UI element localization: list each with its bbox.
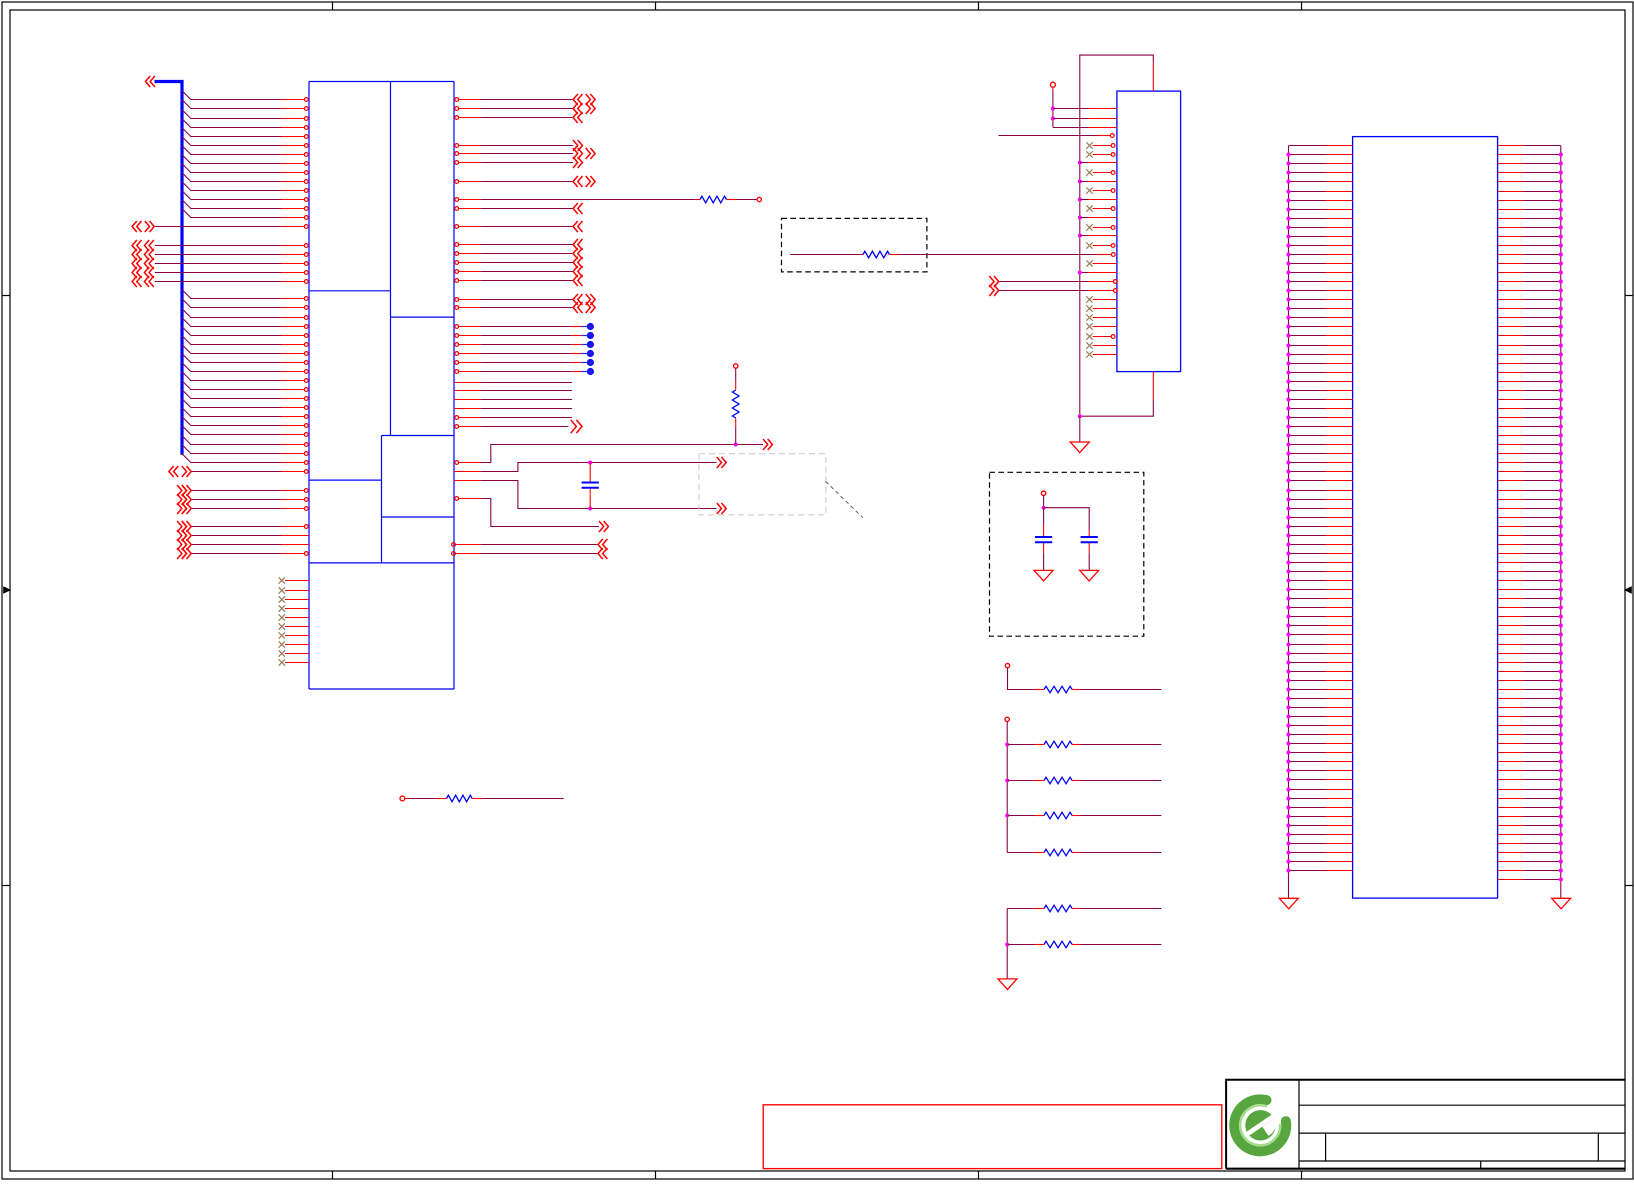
junction J1 L24 (1286, 352, 1290, 356)
wire J1 pin R26 (1498, 372, 1524, 374)
junction J1 L57 (1286, 651, 1290, 655)
wire J1 pin L7 (1289, 200, 1326, 202)
wire J1 pin L52 (1289, 607, 1326, 609)
wire J1 pin R40 (1498, 499, 1524, 501)
wire J1 pin R60 (1498, 680, 1524, 682)
wire U2 pin 2 from T3 (1053, 118, 1089, 120)
wire J1 pin L55 (1289, 634, 1326, 636)
wire east I3 (482, 344, 572, 346)
pin U1 east I1 (455, 325, 459, 329)
pin U1 west 11 (304, 189, 308, 193)
wire J1 pin R51 (1498, 598, 1524, 600)
junction J1 R45 (1559, 542, 1563, 546)
wire J1 pin L47 (1289, 562, 1326, 564)
wire bus branch M9 (182, 363, 282, 372)
pin U1 west 35 (304, 424, 308, 428)
pin U1 west 9 (304, 171, 308, 175)
port chevron G7 row3 (177, 539, 182, 550)
wire R4 out (1080, 689, 1161, 691)
wire R6 out (1080, 780, 1161, 782)
right border center arrow (1625, 587, 1631, 593)
pin U1 west 22 (304, 306, 308, 310)
no-connect pin U2 27 (1086, 342, 1092, 348)
port chevron east A1 (573, 94, 578, 105)
wire bus branch M11 (182, 381, 282, 390)
wire east F1 (482, 226, 574, 228)
wire R7 out (1080, 815, 1161, 817)
resistor R9 (1035, 908, 1044, 910)
wire J1 pin L29 (1289, 399, 1326, 401)
wire G7 row2 (192, 535, 282, 537)
pin U1 west 15 (304, 225, 308, 229)
pin U1 east I3 (455, 343, 459, 347)
wire bus branch L10 (182, 173, 282, 182)
pin U1 west 41 (304, 489, 308, 493)
wire J1 pin R44 (1498, 535, 1524, 537)
wire J1 pin R28 (1498, 390, 1524, 392)
no-connect pin U1 south-west 7 (279, 632, 285, 638)
wire bus branch L9 (182, 164, 282, 173)
junction J1 R2 (1559, 152, 1563, 156)
wire bus branch L2 (182, 100, 282, 109)
no-connect pin U1 south-west 4 (279, 605, 285, 611)
wire J1 pin L65 (1289, 725, 1326, 727)
port chevron G6 row3 (177, 503, 182, 514)
junction J1 L55 (1286, 632, 1290, 636)
wire J1 pin R73 (1498, 798, 1524, 800)
wire rail to R5 (1007, 744, 1035, 746)
wire U2 pin 3 from T3 (1053, 127, 1089, 129)
pin U1 east B2 (455, 152, 459, 156)
wire east I5 (482, 362, 572, 364)
wire G3 row1 (155, 245, 282, 247)
pin U1 east I5 (455, 361, 459, 365)
wire J1 pin L35 (1289, 453, 1326, 455)
junction J1 R66 (1559, 732, 1563, 736)
wire east G1 (482, 244, 574, 246)
no-connect pin U1 south-west 6 (279, 623, 285, 629)
no-connect pin U2 14 (1086, 224, 1092, 230)
pin U1 west 30 (304, 379, 308, 383)
wire J1 pin R54 (1498, 625, 1524, 627)
bus entry dot I4 (587, 350, 594, 357)
junction J1 R9 (1559, 216, 1563, 220)
pin U2 21 (edge circle) (1113, 289, 1117, 293)
wire J1 pin R38 (1498, 480, 1524, 482)
junction J1 L50 (1286, 587, 1290, 591)
wire port row y226 (155, 226, 282, 228)
wire J1 pin R47 (1498, 562, 1524, 564)
junction J1 L56 (1286, 642, 1290, 646)
wire J1 pin L32 (1289, 426, 1326, 428)
terminal T3 (1050, 82, 1055, 87)
wire east H1 (482, 299, 574, 301)
J1 right ground rail (1560, 146, 1562, 880)
pin U1 east P1 (455, 497, 459, 501)
junction J1 L41 (1286, 506, 1290, 510)
wire J1 pin R31 (1498, 417, 1524, 419)
junction T4 (1042, 506, 1046, 510)
wire J1 pin R21 (1498, 326, 1524, 328)
junction J1 R19 (1559, 306, 1563, 310)
wire U2 pin 7 from rail (1078, 161, 1082, 165)
junction J1 R70 (1559, 768, 1563, 772)
junction J1 R61 (1559, 687, 1563, 691)
wire bus branch M10 (182, 372, 282, 381)
wire U2 pin 13 from rail (1078, 216, 1082, 220)
wire J1 pin L11 (1289, 236, 1326, 238)
wire rail to R6 (1007, 780, 1035, 782)
junction J1 L51 (1286, 596, 1290, 600)
pin U1 west 28 (304, 361, 308, 365)
resistor R4 (1035, 689, 1044, 691)
junction J1 R22 (1559, 333, 1563, 337)
wire J1 pin R32 (1498, 426, 1524, 428)
wire J1 pin R29 (1498, 399, 1524, 401)
wire J1 pin L10 (1289, 227, 1326, 229)
junction node N1 (588, 507, 592, 511)
junction J1 R52 (1559, 605, 1563, 609)
port chevron east H2 (573, 302, 578, 313)
wire bus branch L1 (182, 91, 282, 100)
wire gnd rail 2 (1006, 909, 1008, 979)
J1 left ground rail (1288, 146, 1290, 871)
wire J1 pin R58 (1498, 662, 1524, 664)
junction J1 L17 (1286, 288, 1290, 292)
wire J1 pin L22 (1289, 335, 1326, 337)
pin U1 east G1 (455, 243, 459, 247)
junction J1 R25 (1559, 361, 1563, 365)
resistor R5 (1035, 744, 1044, 746)
wire J1 pin R42 (1498, 517, 1524, 519)
wire J1 pin R66 (1498, 734, 1524, 736)
wire bus branch M2 (182, 299, 282, 308)
junction J1 R64 (1559, 714, 1563, 718)
red annotation box (763, 1105, 1222, 1169)
junction J1 R72 (1559, 787, 1563, 791)
junction J1 R73 (1559, 796, 1563, 800)
junction J1 R30 (1559, 406, 1563, 410)
wire J1 pin R27 (1498, 381, 1524, 383)
no-connect pin U1 south-west 5 (279, 614, 285, 620)
wire J1 pin R68 (1498, 752, 1524, 754)
pin U1 west 42 (304, 498, 308, 502)
port chevron east B1 (573, 140, 578, 151)
port chevrons bidirectional row y226 (132, 221, 137, 232)
junction J1 L35 (1286, 451, 1290, 455)
junction J1 R4 (1559, 170, 1563, 174)
wire bus branch M14 (182, 408, 282, 417)
resistor R7 (1035, 815, 1044, 817)
wire J1 pin L34 (1289, 444, 1326, 446)
pin U1 west 44 (304, 525, 308, 529)
pin U1 east J4 (454, 408, 482, 410)
junction J1 R54 (1559, 623, 1563, 627)
junction node L1 (734, 443, 738, 447)
pin U1 east F1 (455, 225, 459, 229)
junction J1 R3 (1559, 161, 1563, 165)
wire east N1 (454, 480, 482, 482)
wire T4 to C3 (1044, 508, 1090, 531)
junction J1 L10 (1286, 225, 1290, 229)
junction J1 L27 (1286, 379, 1290, 383)
wire J1 pin R76 (1498, 825, 1524, 827)
wire bus branch M12 (182, 390, 282, 399)
wire bus branch M5 (182, 327, 282, 336)
wire J1 pin R18 (1498, 299, 1524, 301)
wire J1 pin L37 (1289, 471, 1326, 473)
resistor R2 (732, 390, 739, 418)
wire R11 out (472, 798, 482, 800)
wire J1 pin R7 (1498, 200, 1524, 202)
junction J1 L14 (1286, 261, 1290, 265)
wire J1 pin L6 (1289, 191, 1326, 193)
junction J1 L66 (1286, 732, 1290, 736)
junction J1 L2 (1286, 152, 1290, 156)
resistor R1 (700, 196, 726, 203)
pin U1 west 2 (304, 107, 308, 111)
wire J1 pin R9 (1498, 218, 1524, 220)
junction J1 L44 (1286, 533, 1290, 537)
junction J1 L36 (1286, 460, 1290, 464)
wire G3 row3 (155, 263, 282, 265)
wire J1 pin L48 (1289, 571, 1326, 573)
wire J1 pin R22 (1498, 335, 1524, 337)
junction J1 L78 (1286, 841, 1290, 845)
pin U1 west 6 (304, 144, 308, 148)
wire east G4 (482, 271, 574, 273)
no-connect pin U1 south-west 8 (279, 641, 285, 647)
junction J1 R40 (1559, 497, 1563, 501)
wire J1 pin L30 (1289, 408, 1326, 410)
wire R5 out (1080, 744, 1161, 746)
junction J1 R15 (1559, 270, 1563, 274)
junction J1 L7 (1286, 198, 1290, 202)
wire J1 pin L18 (1289, 299, 1326, 301)
wire J1 pin L66 (1289, 734, 1326, 736)
junction J1 L9 (1286, 216, 1290, 220)
pin U1 west 29 (304, 370, 308, 374)
no-connect pin U2 8 (1086, 169, 1092, 175)
junction J1 L32 (1286, 424, 1290, 428)
junction J1 L48 (1286, 569, 1290, 573)
junction J1 L74 (1286, 805, 1290, 809)
wire J1 pin L80 (1289, 861, 1326, 863)
capacitor C2 (1035, 536, 1052, 538)
no-connect pin U2 18 (1086, 260, 1092, 266)
wire east B2 (482, 153, 574, 155)
port chevron east A2 (573, 103, 578, 114)
pin U1 west 40 (304, 470, 308, 474)
pin U1 west 36 (304, 433, 308, 437)
wire J1 pin L31 (1289, 417, 1326, 419)
wire east J1 (482, 382, 573, 384)
bus entry chevron at bus head (146, 76, 151, 87)
wire J1 pin R59 (1498, 671, 1524, 673)
wire east M1 (454, 471, 482, 473)
wire J1 pin R24 (1498, 354, 1524, 356)
wire J1 pin R16 (1498, 281, 1524, 283)
wire J1 pin L27 (1289, 381, 1326, 383)
junction J1 L18 (1286, 297, 1290, 301)
junction J1 R32 (1559, 424, 1563, 428)
wire J1 pin R53 (1498, 616, 1524, 618)
port chevron G7 row4 (177, 548, 182, 559)
junction J1 R38 (1559, 478, 1563, 482)
junction J1 R6 (1559, 189, 1563, 193)
wire J1 pin R17 (1498, 290, 1524, 292)
wire bus branch M8 (182, 354, 282, 363)
pin U1 east K1 (455, 425, 459, 429)
port chevron G7 row1 (177, 521, 182, 532)
no-connect pin U2 23 (1086, 305, 1092, 311)
junction J1 R60 (1559, 678, 1563, 682)
junction J1 L19 (1286, 306, 1290, 310)
wire U2 top loop (1080, 55, 1154, 416)
junction J1 L38 (1286, 478, 1290, 482)
pin U1 west 4 (304, 126, 308, 130)
title block row divider 3 (1299, 1160, 1625, 1162)
junction J1 L16 (1286, 279, 1290, 283)
wire east L1 to junction (482, 445, 764, 463)
junction J1 L61 (1286, 687, 1290, 691)
junction J1 L75 (1286, 814, 1290, 818)
port chevron left G3 row5 (132, 276, 137, 287)
pin U1 west 20 (304, 280, 308, 284)
pin U1 west 27 (304, 352, 308, 356)
wire J1 pin R3 (1498, 163, 1524, 165)
wire T4 down (1043, 496, 1045, 508)
junction J1 L21 (1286, 324, 1290, 328)
junction J1 R37 (1559, 469, 1563, 473)
pin U1 east J3 (454, 399, 482, 401)
pin U1 east N1 (454, 480, 482, 482)
junction J1 R14 (1559, 261, 1563, 265)
wire bus branch M6 (182, 336, 282, 345)
wire bus branch M1 (182, 290, 282, 299)
wire J1 pin L58 (1289, 662, 1326, 664)
U1 internal divider y290 (309, 290, 391, 292)
pin U1 east I4 (455, 352, 459, 356)
U1 internal divider y480 (309, 479, 382, 481)
port chevrons bidirectional row y471 (169, 466, 174, 477)
junction J1 L80 (1286, 859, 1290, 863)
junction J1 L76 (1286, 823, 1290, 827)
title block logo cell divider (1298, 1080, 1300, 1169)
junction J1 R10 (1559, 225, 1563, 229)
port chevron east G1 (573, 239, 578, 250)
junction J1 L25 (1286, 361, 1290, 365)
U1 internal divider y562 (309, 562, 454, 564)
wire east G5 (482, 280, 574, 282)
wire J1 pin L5 (1289, 181, 1326, 183)
pin U1 west 21 (304, 297, 308, 301)
wire J1 pin L51 (1289, 598, 1326, 600)
wire J1 pin L49 (1289, 580, 1326, 582)
wire harness to U2 pin 20 (999, 281, 1089, 283)
port chevron east G4 (573, 266, 578, 277)
wire J1 pin R71 (1498, 779, 1524, 781)
no-connect pin U2 12 (1086, 205, 1092, 211)
port chevron east L1 (763, 439, 768, 450)
junction J1 R49 (1559, 578, 1563, 582)
pin U1 east J2 (454, 390, 482, 392)
wire J1 pin L73 (1289, 798, 1326, 800)
wire U2 pin 9 from rail (1078, 180, 1082, 184)
junction J1 R75 (1559, 814, 1563, 818)
wire J1 pin L20 (1289, 317, 1326, 319)
resistor R3 (863, 251, 889, 258)
wire J1 pin L23 (1289, 345, 1326, 347)
junction J1 L40 (1286, 497, 1290, 501)
title block col divider row4 (1480, 1161, 1482, 1169)
junction J1 L53 (1286, 614, 1290, 618)
wire J1 pin L26 (1289, 372, 1326, 374)
wire J1 pin R67 (1498, 743, 1524, 745)
resistor R6 (1035, 780, 1044, 782)
wire into R3 (790, 254, 861, 256)
pin U1 east I2 (455, 334, 459, 338)
wire R8 out (1080, 852, 1161, 854)
bus entry dot I1 (587, 323, 594, 330)
port chevron east N1 (717, 503, 722, 514)
wire U2 pin 1 from T3 (1053, 108, 1089, 110)
port chevron east P1 (599, 521, 604, 532)
junction J1 R8 (1559, 207, 1563, 211)
junction J1 R71 (1559, 777, 1563, 781)
no-connect pin U2 10 (1086, 187, 1092, 193)
wire east A2 (482, 108, 574, 110)
junction J1 L54 (1286, 623, 1290, 627)
wire J1 pin L72 (1289, 789, 1326, 791)
junction J1 L63 (1286, 705, 1290, 709)
wire J1 pin R55 (1498, 634, 1524, 636)
junction J1 L37 (1286, 469, 1290, 473)
port chevron left G3 row2 (132, 249, 137, 260)
pin U1 east H2 (455, 306, 459, 310)
wire U2 pin 15 from rail (1078, 234, 1082, 238)
annotation leader line (826, 481, 863, 517)
junction J1 R67 (1559, 741, 1563, 745)
junction J1 R18 (1559, 297, 1563, 301)
wire J1 left rail to ground (1288, 871, 1290, 899)
wire R1 to terminal (726, 199, 735, 201)
wire J1 pin R52 (1498, 607, 1524, 609)
pin U1 east H1 (455, 298, 459, 302)
pin U1 west 25 (304, 334, 308, 338)
wire J1 pin R11 (1498, 236, 1524, 238)
no-connect pin U1 south-west 3 (279, 596, 285, 602)
pin U1 east G5 (455, 279, 459, 283)
wire east A1 (482, 99, 574, 101)
pin U2 20 (edge circle) (1113, 280, 1117, 284)
pin U1 east C1 (455, 180, 459, 184)
pin U1 west 5 (304, 135, 308, 139)
junction J1 L59 (1286, 669, 1290, 673)
pin U1 east B1 (455, 144, 459, 148)
wire bus branch M19 (182, 454, 282, 463)
junction J1 L43 (1286, 524, 1290, 528)
wire J1 pin L33 (1289, 435, 1326, 437)
wire J1 pin L46 (1289, 553, 1326, 555)
junction J1 R47 (1559, 560, 1563, 564)
no-connect pin U2 28 (1086, 351, 1092, 357)
pin U1 east G4 (455, 270, 459, 274)
ground GND1 (1070, 442, 1089, 453)
pin U1 west 38 (304, 452, 308, 456)
junction J1 L39 (1286, 488, 1290, 492)
wire bus branch L13 (182, 200, 282, 209)
